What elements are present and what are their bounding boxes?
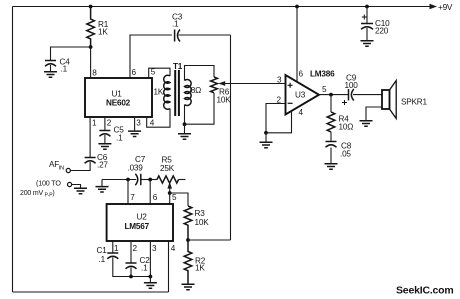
wire to U2 pin 6 [149, 180, 151, 205]
wire C1 bottom [113, 258, 151, 277]
svg-text:.039: .039 [128, 164, 144, 173]
svg-text:6: 6 [299, 70, 304, 79]
svg-text:LM567: LM567 [125, 222, 150, 231]
ground audio row [101, 180, 103, 187]
node U3 supply junction [295, 5, 299, 9]
svg-text:25K: 25K [160, 164, 175, 173]
svg-text:T1: T1 [173, 62, 183, 71]
+9V supply arrow [430, 4, 438, 9]
wire C3 to feedback column [179, 34, 231, 36]
wire C2 bottom [130, 268, 132, 277]
node R1 top junction [89, 5, 93, 9]
terminal AF IN [66, 168, 70, 172]
ground input [74, 188, 87, 193]
wire audio row [102, 179, 136, 181]
svg-text:10K: 10K [195, 218, 210, 227]
ground U1 pin 3 [134, 117, 136, 131]
node C2 bottom junction [129, 275, 133, 279]
node U2 pin 7 junction [126, 178, 130, 182]
svg-text:1K: 1K [195, 264, 205, 273]
svg-text:R3: R3 [195, 209, 206, 218]
capacitor C8 [326, 132, 352, 159]
node U3 ground junction [264, 131, 268, 135]
svg-text:U3: U3 [295, 91, 306, 100]
capacitor C2 [126, 241, 151, 273]
ground R2 [182, 284, 195, 289]
svg-text:U2: U2 [137, 213, 148, 222]
svg-text:.1: .1 [99, 255, 106, 264]
svg-text:8Ω: 8Ω [191, 86, 201, 95]
node secondary ground junction [183, 122, 187, 126]
wire wiper to R3 [170, 193, 188, 206]
wire U1 pin 5 to T1 primary [149, 68, 170, 78]
capacitor C4 [45, 58, 70, 74]
node pin 3 bottom junction [149, 275, 153, 279]
core [175, 70, 179, 116]
svg-text:4: 4 [171, 244, 176, 253]
potentiometer R6 [211, 77, 232, 105]
wire to U2 pin 7 [127, 180, 129, 205]
wire bottom frame (V+ net to U2 pin 4) [13, 291, 169, 293]
ground U3 [265, 133, 267, 142]
svg-text:SeekIC.com: SeekIC.com [396, 285, 454, 297]
wire wiper to U2 pin 5 [169, 193, 171, 204]
wire C4 branch [51, 47, 91, 61]
svg-text:1K: 1K [98, 28, 108, 37]
svg-text:SPKR1: SPKR1 [401, 98, 427, 107]
wire input return to ground [72, 185, 81, 189]
wire C6 to AF input [71, 162, 91, 171]
secondary winding 8 ohm [185, 79, 192, 105]
svg-text:3: 3 [136, 119, 141, 128]
svg-text:.1: .1 [141, 264, 148, 273]
wire speaker return [366, 107, 382, 121]
node output junction [329, 93, 333, 97]
wire U3 output [319, 94, 348, 96]
wire U3 pin 2 loop [266, 104, 285, 133]
resistor R1 [87, 7, 95, 48]
svg-text:U1: U1 [112, 90, 123, 99]
node C10 junction [365, 5, 369, 9]
svg-text:1K: 1K [154, 88, 164, 97]
wire R6 wiper to U3 pin 3 [224, 83, 285, 85]
svg-text:6: 6 [153, 193, 158, 202]
svg-text:1: 1 [114, 244, 119, 253]
svg-text:NE602: NE602 [106, 99, 131, 108]
potentiometer R5 [157, 156, 186, 194]
wire T1 secondary top to R6 [185, 66, 215, 81]
transformer T1 [154, 62, 202, 116]
capacitor C10 [361, 7, 390, 36]
ground T1 secondary [184, 124, 186, 133]
svg-text:3: 3 [152, 244, 157, 253]
svg-text:5: 5 [151, 68, 156, 77]
svg-text:C1: C1 [97, 246, 108, 255]
svg-text:4: 4 [150, 119, 155, 128]
resistor R4 [327, 95, 353, 132]
wire U1 pin 1 to C6 [89, 117, 91, 158]
op-amp U3 LM386 [286, 75, 320, 115]
node U2 pin 6 junction [148, 178, 152, 182]
svg-text:.1: .1 [61, 65, 68, 74]
svg-text:(100 TO: (100 TO [36, 179, 61, 188]
wire C7 to R5 [142, 179, 158, 181]
svg-text:2: 2 [133, 244, 138, 253]
capacitor C3 [172, 13, 183, 42]
svg-text:220: 220 [375, 27, 389, 36]
ground C4 [44, 72, 57, 77]
svg-text:5: 5 [172, 193, 177, 202]
wire R1 to U1 pin 8 [90, 47, 92, 78]
wire +9V top rail [13, 6, 430, 8]
wire left frame (V+ net) [12, 7, 14, 293]
svg-text:2: 2 [107, 119, 112, 128]
resistor R2 [184, 240, 206, 284]
ground C8 [330, 148, 332, 164]
svg-text:8: 8 [92, 69, 97, 78]
ground speaker [360, 121, 373, 126]
node R3/R2 junction [186, 238, 190, 242]
capacitor C1 [97, 241, 119, 264]
svg-text:7: 7 [130, 193, 135, 202]
speaker SPKR1 [382, 81, 427, 119]
svg-text:1: 1 [92, 119, 97, 128]
wire U3 pin 6 to +9V [296, 7, 298, 82]
svg-text:.1: .1 [116, 134, 123, 143]
wire U2 pin 4 to V+ frame [168, 241, 170, 292]
svg-text:5: 5 [322, 85, 327, 94]
IC U2 LM567 box [107, 204, 173, 241]
svg-text:100: 100 [345, 81, 359, 90]
capacitor C7 [128, 155, 146, 185]
wire U1 pin 4 to T1 primary [147, 109, 170, 128]
svg-text:IN: IN [59, 166, 64, 172]
svg-text:LM386: LM386 [310, 70, 335, 79]
wire U2 pin 3 to ground [149, 241, 151, 283]
wire U1 pin 6 riser [130, 35, 172, 78]
svg-text:+9V: +9V [438, 3, 453, 12]
wire T1 secondary bottom [185, 93, 215, 124]
svg-text:.27: .27 [97, 161, 108, 170]
svg-text:10Ω: 10Ω [339, 123, 354, 132]
svg-text:.05: .05 [340, 150, 351, 159]
op-amp U1 NE602 box [85, 78, 152, 117]
node C4 junction [89, 45, 93, 49]
wire U3 pin 4 [266, 111, 292, 133]
capacitor C5 [99, 117, 124, 143]
svg-text:.1: .1 [172, 20, 179, 29]
capacitor C6 [85, 153, 109, 170]
terminal input return [68, 182, 72, 186]
resistor R3 [184, 206, 209, 240]
ground C5 [104, 135, 106, 144]
ground C10 [366, 28, 368, 41]
wire C9 to speaker [353, 94, 382, 96]
svg-text:6: 6 [132, 68, 137, 77]
wire R3/R2 node to feedback column [188, 239, 231, 241]
node R5 wiper junction [168, 191, 172, 195]
primary winding 1K [164, 75, 170, 109]
svg-text:3: 3 [277, 76, 282, 85]
svg-text:10K: 10K [217, 96, 232, 105]
svg-text:4: 4 [299, 108, 304, 117]
ground U2 pin 3 [144, 283, 157, 288]
wire feedback column (C3 to R3/R2 node) [230, 35, 232, 240]
capacitor C9 [342, 74, 358, 106]
